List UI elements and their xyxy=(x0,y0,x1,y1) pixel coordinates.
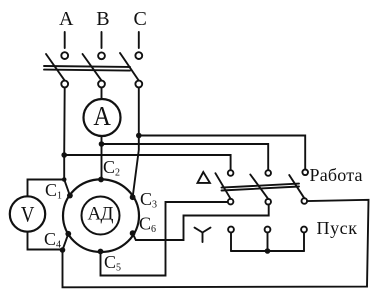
svg-text:В: В xyxy=(96,8,109,30)
svg-text:Работа: Работа xyxy=(310,165,363,185)
svg-text:V: V xyxy=(21,201,35,226)
svg-text:А: А xyxy=(59,8,74,30)
svg-text:АД: АД xyxy=(88,204,114,225)
svg-text:С: С xyxy=(134,8,147,30)
svg-text:Пуск: Пуск xyxy=(317,218,358,238)
svg-text:А: А xyxy=(93,101,111,131)
